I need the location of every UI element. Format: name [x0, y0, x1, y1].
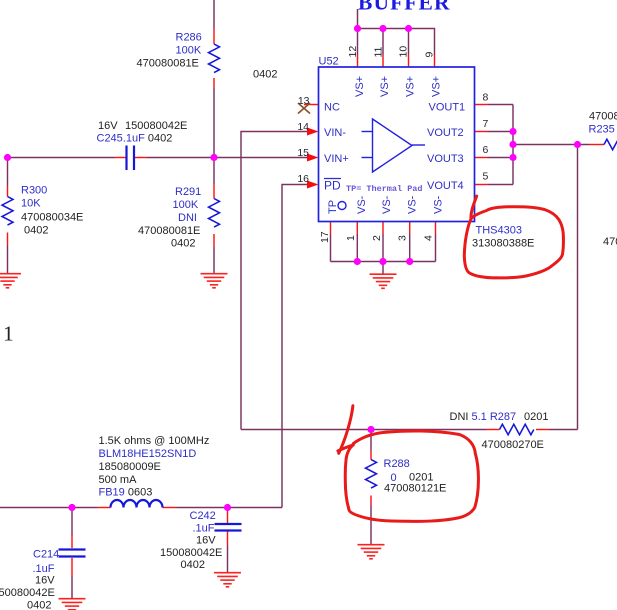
op-amp triangle	[338, 119, 425, 210]
svg-text:VS+: VS+	[405, 76, 417, 97]
resistor R287 body (horizontal)	[500, 424, 534, 435]
svg-text:THS4303: THS4303	[476, 225, 522, 237]
svg-text:100K: 100K	[173, 199, 199, 211]
svg-text:0402: 0402	[181, 559, 205, 571]
svg-text:470080121E: 470080121E	[384, 483, 446, 495]
wire pin4 drop	[435, 234, 437, 262]
op-amp U52 box	[319, 67, 475, 222]
svg-text:11: 11	[373, 46, 385, 57]
wire R288 top	[370, 430, 372, 451]
wire IC ground stem	[382, 262, 384, 274]
svg-text:0402: 0402	[171, 238, 195, 250]
pin stub pin4	[435, 222, 437, 235]
svg-text:470: 470	[603, 236, 617, 248]
pin stub R235 left	[590, 144, 605, 146]
svg-text:470080270E: 470080270E	[482, 439, 544, 451]
node junction C242	[224, 504, 231, 511]
pin stub FB19 left	[98, 507, 111, 509]
svg-text:16V: 16V	[196, 535, 216, 547]
pin stub C242 top	[227, 508, 229, 523]
svg-text:TP= Thermal Pad: TP= Thermal Pad	[346, 184, 423, 194]
svg-text:16V150080042E: 16V150080042E	[98, 120, 187, 132]
svg-text:DNI: DNI	[178, 212, 197, 224]
wire pin16 horizontal and down	[282, 185, 309, 508]
capacitor C242 plates	[215, 523, 242, 525]
pin stub C214 top	[71, 535, 73, 548]
svg-text:16: 16	[297, 173, 309, 185]
wire top pin10 drop	[408, 29, 410, 56]
resistor R288 body	[366, 460, 377, 489]
pin stub pin6	[475, 157, 488, 159]
pin stub R300 top	[7, 186, 9, 197]
label VS- pins	[356, 195, 445, 214]
node junction vout pin6	[509, 154, 516, 161]
resistor R235 body (horizontal, clipped at right edge)	[604, 139, 617, 150]
node junction riser top	[574, 141, 581, 148]
svg-text:R291: R291	[175, 186, 201, 198]
pin stub C242 bottom	[227, 532, 229, 546]
wire feedback horizontal left	[241, 429, 487, 431]
svg-text:VS+: VS+	[431, 76, 443, 97]
pin stub C245 right	[135, 157, 147, 159]
svg-text:185080009E: 185080009E	[99, 461, 161, 473]
svg-text:C245.1uF 0402: C245.1uF 0402	[97, 133, 173, 145]
ground U52	[370, 274, 397, 288]
svg-text:47008: 47008	[589, 111, 617, 123]
svg-text:10: 10	[398, 46, 410, 58]
pin stub pin9	[434, 55, 436, 67]
node junction top bus 2	[379, 25, 386, 32]
svg-text:17: 17	[319, 231, 331, 243]
svg-text:470080081E: 470080081E	[138, 225, 200, 237]
svg-text:PD: PD	[324, 179, 341, 193]
wire R288 bottom to ground	[370, 505, 372, 544]
capacitor C214 plates	[59, 548, 86, 550]
node junction rail 3	[406, 258, 413, 265]
ground C214	[59, 599, 86, 610]
node junction top bus 1	[354, 25, 361, 32]
svg-text:VS-: VS-	[381, 195, 393, 214]
node junction rail 2	[379, 258, 386, 265]
svg-text:0402: 0402	[253, 69, 277, 81]
wire top pin11 drop	[382, 29, 384, 56]
wire bottom pin rail	[331, 261, 436, 263]
label VS+ pins	[354, 76, 443, 97]
svg-text:VIN+: VIN+	[324, 153, 349, 165]
node junction VIN	[210, 154, 217, 161]
wire pin3 drop	[409, 234, 411, 262]
svg-text:2: 2	[371, 235, 383, 241]
svg-text:100K: 100K	[176, 45, 202, 57]
svg-text:1: 1	[3, 322, 14, 346]
svg-text:1: 1	[345, 235, 357, 241]
pin stub R288 bottom	[370, 496, 372, 506]
svg-text:VS-: VS-	[356, 195, 368, 214]
wire FB19 right to corner	[177, 507, 283, 509]
svg-text:8: 8	[483, 92, 489, 104]
wire node VIN horizontal left	[8, 157, 115, 159]
annotation slash R288	[339, 406, 353, 454]
wire C242 lower stem	[227, 546, 229, 573]
ground R288	[358, 545, 385, 559]
inductor FB19 body	[111, 500, 163, 507]
wire pin5 link	[488, 184, 514, 186]
pin stub pin8	[475, 104, 488, 106]
svg-text:0402: 0402	[24, 225, 48, 237]
wire top supply bus	[358, 9, 435, 55]
svg-text:VOUT2: VOUT2	[427, 127, 464, 139]
pin stub R288 top	[370, 451, 372, 460]
node junction rail 1	[354, 258, 361, 265]
node junction C214	[68, 504, 75, 511]
svg-text:16V: 16V	[35, 575, 55, 587]
wire R286 bottom to junction	[213, 88, 215, 158]
svg-text:10K: 10K	[21, 198, 41, 210]
svg-text:VOUT3: VOUT3	[427, 153, 464, 165]
svg-text:500 mA: 500 mA	[99, 474, 138, 486]
wire C214 stem	[71, 508, 73, 536]
resistor R291 body	[209, 199, 220, 228]
svg-text:VOUT4: VOUT4	[427, 180, 464, 192]
pin stub pin5	[475, 184, 488, 186]
wire pin14 horizontal	[241, 132, 309, 430]
node junction R288	[367, 426, 374, 433]
pin stub pin1	[356, 222, 358, 235]
svg-text:5: 5	[483, 171, 489, 183]
capacitor C245 plates	[125, 146, 127, 171]
pin stub C245 left	[115, 157, 127, 159]
wire VOUT horizontal to R235	[513, 144, 590, 146]
svg-text:13: 13	[298, 95, 310, 107]
svg-text:VIN-: VIN-	[324, 127, 346, 139]
pin stub pin2	[382, 222, 384, 235]
svg-text:FB19 0603: FB19 0603	[99, 487, 153, 499]
resistor R286 body	[209, 44, 220, 73]
pin stub R300 bottom	[7, 233, 9, 246]
wire VOUT bus vertical	[512, 105, 514, 185]
svg-text:BUFFER: BUFFER	[358, 0, 451, 15]
ground C242	[214, 573, 241, 587]
svg-text:TP: TP	[327, 200, 339, 214]
wire R286 top vertical	[213, 0, 215, 29]
svg-text:6: 6	[483, 144, 489, 156]
node junction vout pin7	[509, 128, 516, 135]
arrow pin16	[307, 181, 319, 189]
pin stub R287 right	[536, 429, 550, 431]
pin stub R286 top	[213, 29, 215, 45]
wire R291 bottom to ground	[213, 247, 215, 274]
wire pin1 drop	[356, 234, 358, 262]
pin stub 13	[304, 104, 319, 106]
svg-text:9: 9	[424, 52, 436, 58]
wire R287 right to corner	[550, 429, 578, 431]
ground R300	[0, 274, 21, 288]
svg-text:50080042E: 50080042E	[0, 587, 55, 599]
svg-text:150080042E: 150080042E	[160, 547, 222, 559]
svg-text:15: 15	[297, 147, 309, 159]
arrow pin14	[307, 128, 319, 136]
wire pin8 link	[488, 104, 514, 106]
wire C245 right to pin15 arrow	[147, 157, 309, 159]
wire top pin12 drop	[357, 29, 359, 56]
node junction left	[4, 154, 11, 161]
svg-text:C242: C242	[190, 510, 216, 522]
pin stub pin17	[330, 222, 332, 235]
pin stub pin12	[357, 55, 359, 67]
annotation circle R288	[338, 431, 479, 521]
pin stub R291 top	[213, 184, 215, 199]
svg-text:.1uF: .1uF	[193, 523, 215, 535]
svg-text:313080388E: 313080388E	[472, 238, 534, 250]
ground R291	[201, 274, 228, 288]
pin stub R287 left	[487, 429, 500, 431]
pin stub pin7	[475, 131, 488, 133]
svg-text:BLM18HE152SN1D: BLM18HE152SN1D	[99, 448, 197, 460]
wire pin2 drop	[382, 234, 384, 262]
svg-text:DNI 5.1 R2870201: DNI 5.1 R2870201	[450, 411, 549, 423]
svg-text:R288: R288	[384, 458, 410, 470]
wire R291 top	[213, 158, 215, 185]
wire feedback vertical riser	[577, 145, 579, 430]
svg-text:3: 3	[397, 235, 409, 241]
svg-text:VS+: VS+	[379, 76, 391, 97]
svg-text:R235: R235	[589, 124, 615, 136]
svg-text:C214: C214	[33, 549, 59, 561]
svg-text:470080081E: 470080081E	[137, 58, 199, 70]
wire pin6 link	[488, 157, 514, 159]
svg-text:R300: R300	[21, 185, 47, 197]
pin stub pin10	[408, 55, 410, 67]
svg-text:R286: R286	[176, 32, 202, 44]
svg-text:470080034E: 470080034E	[21, 212, 83, 224]
arrow pin15	[307, 154, 319, 162]
svg-text:1.5K ohms @ 100MHz: 1.5K ohms @ 100MHz	[99, 435, 210, 447]
svg-text:NC: NC	[324, 102, 340, 114]
svg-text:0402: 0402	[27, 600, 51, 610]
pin stub pin3	[409, 222, 411, 235]
wire C214 lower stem	[71, 576, 73, 599]
pin stub R286 bottom	[213, 78, 215, 88]
svg-text:7: 7	[483, 118, 489, 130]
annotation circle THS4303	[464, 196, 563, 278]
resistor R300 body	[2, 197, 13, 226]
svg-text:4: 4	[423, 235, 435, 241]
svg-text:VS-: VS-	[407, 195, 419, 214]
svg-text:14: 14	[297, 121, 309, 133]
node junction top bus 3	[405, 25, 412, 32]
pin stub C214 bottom	[71, 558, 73, 576]
svg-text:12: 12	[347, 46, 359, 58]
wire pin7 link	[488, 131, 514, 133]
pin stub R291 bottom	[213, 234, 215, 247]
svg-text:VS+: VS+	[354, 76, 366, 97]
svg-text:VOUT1: VOUT1	[429, 102, 466, 114]
svg-text:U52: U52	[319, 56, 339, 68]
wire bottom net left segment	[0, 507, 98, 509]
pin stub FB19 right	[163, 507, 177, 509]
thermal pad circle	[338, 202, 346, 210]
wire R300 bottom to ground	[7, 245, 9, 274]
svg-text:.1uF: .1uF	[33, 563, 55, 575]
wire pin17 drop	[330, 234, 332, 262]
pin stub pin11	[382, 55, 384, 67]
node junction vout tap	[509, 141, 516, 148]
wire R300 top	[7, 158, 9, 187]
svg-text:VS-: VS-	[433, 195, 445, 214]
